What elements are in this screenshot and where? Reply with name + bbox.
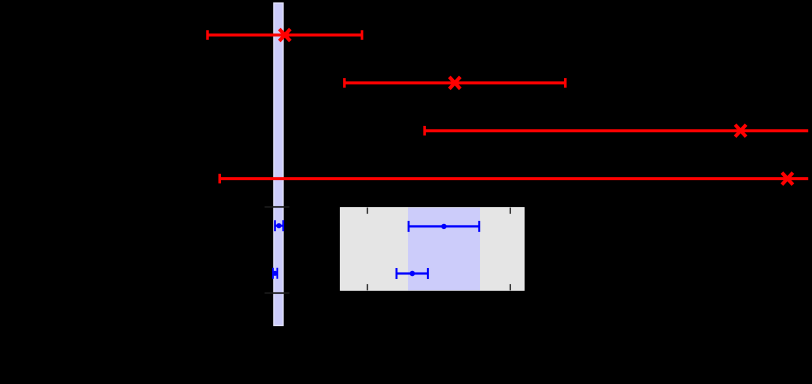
blue mini errorbar row 5 (main plot) <box>275 220 283 231</box>
inset blue errorbar 1 <box>409 221 480 232</box>
inset blue errorbar 2 <box>397 268 428 279</box>
red errorbar row 3 <box>425 126 809 136</box>
inset blue band <box>408 208 480 291</box>
red X marker row 2 <box>449 77 460 89</box>
inset bottom axis ticks <box>366 284 368 290</box>
inset top axis ticks <box>366 208 368 214</box>
red errorbar row 1 <box>208 30 363 40</box>
red X marker row 3 <box>735 125 746 137</box>
vertical average band <box>274 3 283 326</box>
inset panel background <box>340 208 524 291</box>
red errorbar row 2 <box>344 78 565 88</box>
red X marker row 1 <box>279 29 290 41</box>
zoom-region tick top <box>265 206 290 208</box>
blue mini errorbar row 6 (main plot) <box>273 268 277 279</box>
zoom-region tick bottom <box>265 292 290 294</box>
red errorbar row 4 <box>220 174 809 184</box>
red X marker row 4 <box>782 173 793 185</box>
